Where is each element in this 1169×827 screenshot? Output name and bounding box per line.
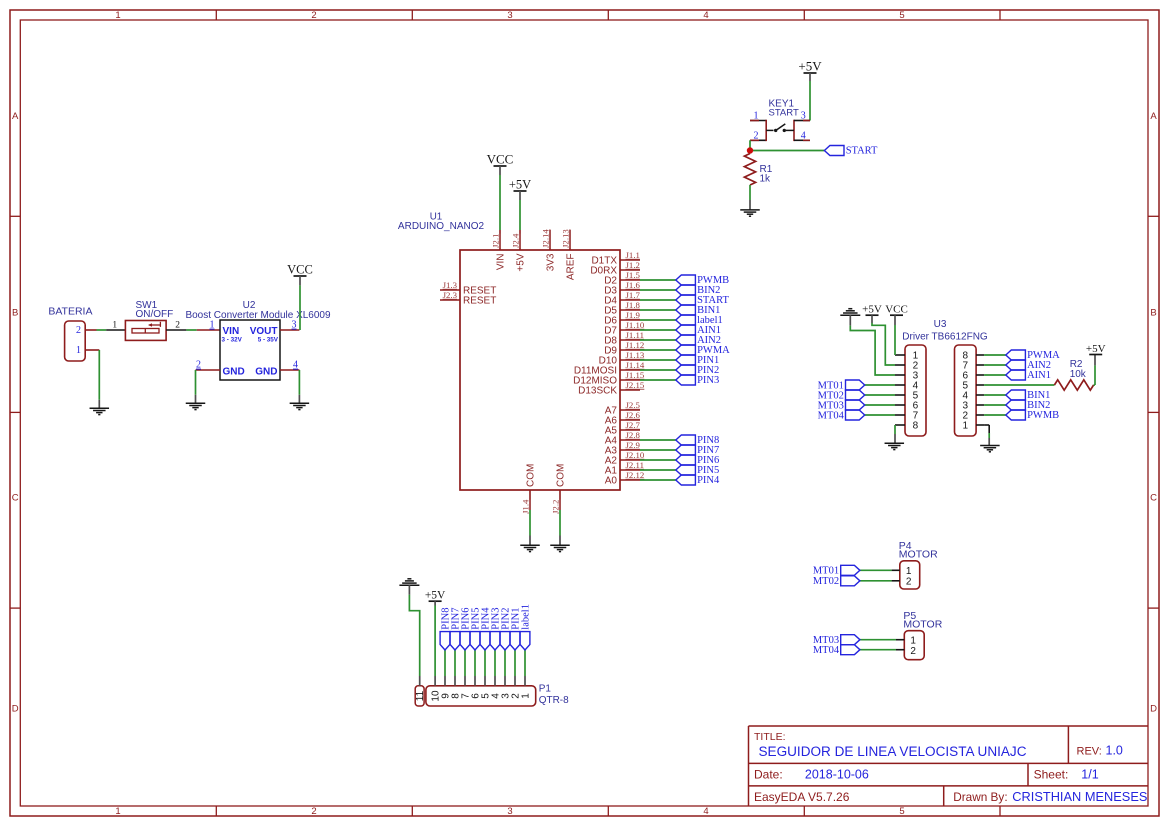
svg-text:REV:: REV:: [1077, 746, 1102, 758]
svg-text:2: 2: [76, 325, 81, 336]
svg-text:VCC: VCC: [885, 304, 908, 316]
svg-text:MOTOR: MOTOR: [903, 619, 942, 631]
svg-text:3: 3: [292, 320, 297, 331]
svg-text:J2.13: J2.13: [561, 229, 571, 248]
svg-text:2: 2: [311, 10, 316, 21]
svg-text:D: D: [1150, 704, 1157, 715]
svg-text:Date:: Date:: [754, 768, 783, 782]
svg-text:MT04: MT04: [813, 645, 840, 656]
svg-text:J2.8: J2.8: [626, 430, 641, 440]
svg-text:J1.15: J1.15: [626, 370, 645, 380]
svg-text:RESET: RESET: [463, 296, 496, 307]
svg-text:2: 2: [906, 576, 912, 587]
svg-text:VCC: VCC: [287, 263, 313, 277]
svg-text:5: 5: [899, 10, 904, 21]
svg-text:B: B: [12, 308, 18, 319]
svg-text:J1.12: J1.12: [626, 340, 645, 350]
svg-text:J1.10: J1.10: [626, 320, 645, 330]
svg-text:2018-10-06: 2018-10-06: [805, 768, 869, 782]
svg-text:J1.3: J1.3: [443, 280, 458, 290]
svg-text:11: 11: [415, 690, 426, 701]
svg-text:Sheet:: Sheet:: [1034, 768, 1069, 782]
svg-text:+5V: +5V: [425, 590, 446, 602]
svg-text:+5V: +5V: [798, 59, 822, 74]
svg-text:J2.15: J2.15: [626, 380, 645, 390]
svg-text:B: B: [1150, 308, 1156, 319]
svg-text:PIN3: PIN3: [697, 375, 719, 386]
svg-text:1: 1: [963, 421, 969, 432]
svg-text:D: D: [12, 704, 19, 715]
svg-text:START: START: [846, 146, 878, 157]
svg-text:J2.7: J2.7: [626, 420, 641, 430]
svg-text:1: 1: [210, 320, 215, 331]
svg-text:A: A: [1150, 111, 1157, 122]
svg-text:AIN1: AIN1: [1027, 370, 1051, 381]
svg-text:J1.11: J1.11: [626, 330, 645, 340]
svg-text:4: 4: [801, 130, 806, 141]
svg-text:J1.1: J1.1: [626, 250, 640, 260]
svg-text:P1: P1: [539, 684, 552, 695]
svg-text:GND: GND: [255, 367, 277, 378]
svg-text:1k: 1k: [760, 174, 772, 185]
svg-text:MT02: MT02: [813, 576, 839, 587]
svg-text:COM: COM: [526, 464, 537, 487]
svg-text:J1.7: J1.7: [626, 290, 641, 300]
svg-text:C: C: [12, 493, 19, 504]
svg-text:4: 4: [293, 360, 298, 371]
svg-text:Drawn By:: Drawn By:: [953, 790, 1007, 804]
svg-text:1: 1: [112, 321, 117, 331]
svg-text:3: 3: [801, 111, 806, 122]
svg-text:U3: U3: [934, 319, 947, 330]
svg-text:D13SCK: D13SCK: [578, 386, 617, 397]
svg-text:ARDUINO_NANO2: ARDUINO_NANO2: [398, 221, 485, 232]
svg-text:AREF: AREF: [566, 254, 577, 281]
svg-text:1: 1: [115, 806, 120, 817]
svg-text:VIN: VIN: [223, 326, 240, 337]
svg-text:BATERIA: BATERIA: [48, 306, 92, 318]
svg-text:GND: GND: [223, 367, 245, 378]
svg-text:1: 1: [754, 111, 759, 122]
svg-text:2: 2: [175, 321, 180, 331]
svg-text:5 - 35V: 5 - 35V: [258, 337, 279, 344]
svg-text:J2.6: J2.6: [626, 410, 641, 420]
svg-text:J1.9: J1.9: [626, 310, 641, 320]
svg-text:3: 3: [507, 10, 512, 21]
svg-text:3 - 32V: 3 - 32V: [222, 337, 243, 344]
svg-text:J2.9: J2.9: [626, 440, 641, 450]
svg-text:MOTOR: MOTOR: [899, 549, 938, 561]
svg-text:J2.3: J2.3: [443, 290, 458, 300]
svg-text:ON/OFF: ON/OFF: [136, 309, 174, 320]
svg-text:5: 5: [899, 806, 904, 817]
svg-text:J1.13: J1.13: [626, 350, 645, 360]
svg-text:1/1: 1/1: [1081, 768, 1098, 782]
svg-text:A: A: [12, 111, 19, 122]
svg-text:J2.14: J2.14: [541, 229, 551, 248]
svg-text:label1: label1: [520, 604, 531, 630]
svg-text:PIN4: PIN4: [697, 475, 720, 486]
svg-text:10k: 10k: [1070, 369, 1087, 380]
svg-text:J2.2: J2.2: [551, 500, 561, 514]
svg-text:QTR-8: QTR-8: [539, 695, 569, 706]
svg-text:J1.2: J1.2: [626, 260, 640, 270]
svg-text:Driver TB6612FNG: Driver TB6612FNG: [902, 332, 988, 343]
svg-text:+5V: +5V: [509, 178, 531, 192]
svg-text:VIN: VIN: [496, 254, 507, 271]
svg-text:J1.4: J1.4: [521, 499, 531, 514]
svg-text:J2.4: J2.4: [511, 233, 521, 248]
svg-text:2: 2: [754, 130, 759, 141]
svg-text:2: 2: [311, 806, 316, 817]
svg-text:J1.5: J1.5: [626, 270, 641, 280]
svg-text:START: START: [769, 108, 799, 119]
svg-text:4: 4: [703, 806, 708, 817]
svg-text:MT01: MT01: [813, 566, 839, 577]
svg-text:+5V: +5V: [1086, 343, 1106, 355]
svg-text:J1.6: J1.6: [626, 280, 641, 290]
svg-text:1: 1: [906, 566, 912, 577]
svg-text:2: 2: [196, 360, 201, 371]
svg-text:MT04: MT04: [818, 410, 845, 421]
svg-text:J2.12: J2.12: [626, 470, 645, 480]
svg-text:1: 1: [76, 345, 81, 356]
svg-text:J2.11: J2.11: [626, 460, 645, 470]
svg-text:VCC: VCC: [487, 152, 514, 167]
svg-text:J1.14: J1.14: [626, 360, 645, 370]
svg-text:CRISTHIAN MENESES: CRISTHIAN MENESES: [1012, 789, 1147, 804]
svg-text:J2.5: J2.5: [626, 400, 641, 410]
svg-text:2: 2: [910, 646, 916, 657]
svg-text:EasyEDA V5.7.26: EasyEDA V5.7.26: [754, 790, 850, 804]
svg-text:PWMB: PWMB: [1027, 410, 1059, 421]
svg-text:J2.1: J2.1: [491, 234, 501, 248]
svg-text:VOUT: VOUT: [250, 326, 278, 337]
svg-text:J1.8: J1.8: [626, 300, 641, 310]
svg-text:8: 8: [913, 421, 919, 432]
svg-text:C: C: [1150, 493, 1157, 504]
svg-text:J2.10: J2.10: [626, 450, 645, 460]
svg-text:A0: A0: [605, 476, 618, 487]
svg-text:3: 3: [507, 806, 512, 817]
svg-text:1: 1: [115, 10, 120, 21]
svg-text:3V3: 3V3: [546, 253, 557, 271]
svg-text:TITLE:: TITLE:: [754, 731, 786, 743]
svg-text:SEGUIDOR DE LINEA VELOCISTA UN: SEGUIDOR DE LINEA VELOCISTA UNIAJC: [759, 744, 1027, 760]
svg-text:1: 1: [521, 693, 532, 699]
svg-text:+5V: +5V: [516, 253, 527, 271]
svg-text:+5V: +5V: [862, 304, 882, 316]
svg-text:1.0: 1.0: [1106, 744, 1123, 758]
svg-text:COM: COM: [556, 464, 567, 487]
svg-text:4: 4: [703, 10, 708, 21]
